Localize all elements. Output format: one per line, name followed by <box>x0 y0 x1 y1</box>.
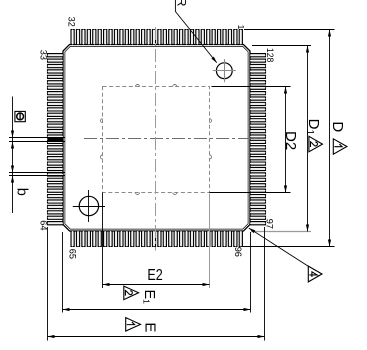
svg-text:128: 128 <box>265 48 275 62</box>
index mark circle top-right <box>216 63 232 79</box>
right lead row pins 97-128 <box>250 54 266 225</box>
dimension D1 <box>251 46 323 232</box>
top lead row pins 1-32 <box>71 30 242 45</box>
svg-text:1: 1 <box>236 25 245 30</box>
svg-text:D2: D2 <box>282 131 299 150</box>
svg-text:33: 33 <box>38 50 48 60</box>
index mark circle bottom-left <box>79 196 98 215</box>
dimension e (lead pitch) <box>9 97 65 214</box>
pad outline bumps <box>101 85 212 195</box>
vertical centerline <box>155 27 157 251</box>
package body <box>63 45 250 232</box>
left lead row pins 33-64 <box>48 54 64 225</box>
package body inner outline <box>65 46 248 229</box>
highlighted lead for pitch e <box>48 137 64 141</box>
svg-text:97: 97 <box>265 219 275 229</box>
svg-text:E2: E2 <box>147 267 162 284</box>
bottom lead row pins 65-96 <box>71 231 242 247</box>
svg-text:E: E <box>142 322 159 332</box>
dimension b (lead width) <box>9 166 65 196</box>
svg-text:96: 96 <box>233 247 243 257</box>
exposed pad dashed outline <box>103 87 210 193</box>
svg-text:65: 65 <box>68 249 78 259</box>
svg-text:b: b <box>14 188 30 196</box>
radius leader R <box>174 0 217 63</box>
svg-text:32: 32 <box>66 17 76 27</box>
dimension D <box>243 30 347 247</box>
dimension E2 <box>103 193 210 289</box>
dimension D2 <box>210 87 300 193</box>
note 4 leader to chamfered corner <box>249 228 322 282</box>
svg-text:R: R <box>174 0 188 7</box>
svg-text:D: D <box>329 121 346 132</box>
horizontal centerline <box>84 138 262 140</box>
dimension E <box>48 227 265 341</box>
dimension E1 <box>63 232 251 313</box>
